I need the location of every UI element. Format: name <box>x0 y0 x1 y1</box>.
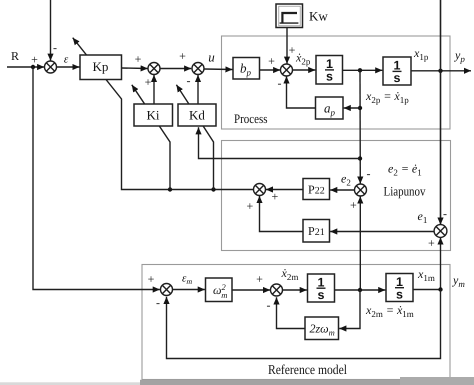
wire Kd up to sum3 <box>197 75 199 104</box>
svg-text:yp: yp <box>454 48 465 64</box>
node x2p <box>358 68 362 72</box>
wire ref integrator2 out <box>413 289 441 291</box>
svg-text:Ki: Ki <box>147 108 160 123</box>
wire Kp to sum2 <box>122 67 148 70</box>
wire sum2 to sum3 <box>160 68 191 70</box>
wire e1 to P21 <box>330 231 435 233</box>
block ref integrator 1s m2 <box>386 274 413 302</box>
summing junction em <box>161 284 173 296</box>
svg-text:ym: ym <box>452 273 465 289</box>
svg-text:+: + <box>350 198 357 212</box>
node x2p to Kd tap <box>358 156 362 160</box>
summing junction sum1 <box>45 61 57 73</box>
svg-text:s: s <box>326 70 333 84</box>
wire 2zwm to sum2m bottom <box>277 297 306 328</box>
svg-text:s: s <box>396 287 403 301</box>
svg-text:s: s <box>318 288 325 302</box>
wire ref integrator1 to integrator2 <box>335 289 386 291</box>
block ap <box>316 97 344 119</box>
wire em sum to wm2 <box>172 289 205 291</box>
wire ym up to e1 sum <box>440 237 442 289</box>
wire x2p down to e2 sum <box>359 70 361 183</box>
svg-text:e2 = ė1: e2 = ė1 <box>388 162 422 178</box>
svg-text:P22: P22 <box>308 183 325 197</box>
summing junction sumL adaptation <box>254 184 266 196</box>
wire x2p tap to Kd bottom <box>199 127 361 158</box>
wire yp down to e1 sum <box>440 0 442 225</box>
block wm2 <box>206 278 233 302</box>
node Kd tap <box>211 187 215 191</box>
svg-text:-: - <box>367 167 371 181</box>
block integrator 1s process2 <box>383 57 411 85</box>
svg-text:x2p = ẋ1p: x2p = ẋ1p <box>365 89 409 105</box>
node Ki tap <box>168 187 172 191</box>
wire bp to sum4 <box>260 69 281 71</box>
wire yp feedback from top into sum1 <box>50 0 52 61</box>
svg-text:u: u <box>208 50 215 65</box>
svg-text:e2: e2 <box>341 172 351 188</box>
block ref integrator 1s m1 <box>308 274 335 302</box>
summing junction sum4 process <box>281 64 293 76</box>
wire P21 to sumL bottom <box>260 196 304 232</box>
summing junction e1 <box>434 225 447 238</box>
wire adaptation bus from sumL <box>73 38 254 190</box>
svg-text:e1: e1 <box>418 209 428 225</box>
wire adaptation to Ki <box>132 85 170 190</box>
node ap tap <box>358 106 362 110</box>
summing junction sum2m <box>271 284 283 296</box>
svg-text:+: + <box>148 272 155 286</box>
wire integrator1 to integrator2 <box>343 69 383 71</box>
svg-text:+: + <box>31 53 38 67</box>
svg-text:Reference model: Reference model <box>268 362 347 377</box>
wire x2m up into e2 sum <box>359 196 361 290</box>
scan artifact bottom strip <box>140 380 400 385</box>
svg-text:-: - <box>53 41 57 55</box>
wire ym feedback loop bottom <box>167 290 441 359</box>
wire wm2 to sum2m <box>232 289 270 291</box>
svg-text:+: + <box>289 43 296 57</box>
process box <box>222 36 451 129</box>
svg-text:ẋ2p: ẋ2p <box>295 51 311 67</box>
svg-text:+: + <box>145 75 152 89</box>
svg-text:ẋ2m: ẋ2m <box>281 266 299 282</box>
wire into ap <box>344 107 360 109</box>
svg-text:s: s <box>394 71 401 85</box>
svg-text:+: + <box>268 54 275 68</box>
block integrator 1s process1 <box>316 56 343 85</box>
svg-text:+: + <box>256 272 263 286</box>
wire ap feedback to sum4 <box>287 76 316 108</box>
svg-text:-: - <box>443 207 447 221</box>
reference model box <box>142 265 450 380</box>
svg-text:-: - <box>267 298 271 312</box>
svg-text:-: - <box>156 296 160 310</box>
wire sum4 to integrator1 <box>293 69 316 71</box>
svg-text:-: - <box>278 76 282 90</box>
block Kp <box>80 55 122 80</box>
svg-text:+: + <box>247 199 254 213</box>
svg-text:Kd: Kd <box>189 108 205 123</box>
svg-text:+: + <box>272 190 279 204</box>
summing junction sum3 <box>192 63 204 75</box>
summing junction sum2 <box>148 63 160 75</box>
svg-text:R: R <box>11 49 19 63</box>
svg-text:εm: εm <box>182 273 192 287</box>
block 2zwm <box>305 317 339 340</box>
wire R input <box>7 66 44 68</box>
block P21 <box>303 220 330 243</box>
liapunov box <box>222 141 451 251</box>
svg-text:x2m = ẋ1m: x2m = ẋ1m <box>365 303 414 319</box>
wire Ki up to sum2 <box>153 75 155 104</box>
block P22 <box>303 179 330 200</box>
wire Kw down to sum4 <box>286 28 288 64</box>
wire adaptation to Kd <box>176 85 213 190</box>
svg-text:+: + <box>135 52 142 66</box>
wire e2 to P22 <box>330 189 355 191</box>
svg-text:P21: P21 <box>308 224 325 238</box>
svg-text:x1p: x1p <box>413 46 429 62</box>
svg-text:x1m: x1m <box>417 267 435 283</box>
svg-text:Process: Process <box>234 111 268 126</box>
block bp <box>233 58 260 80</box>
wire integrator2 output yp <box>411 70 471 72</box>
svg-text:Kp: Kp <box>93 59 109 74</box>
svg-text:ε: ε <box>64 54 69 66</box>
svg-text:Liapunov: Liapunov <box>384 183 426 198</box>
svg-text:+: + <box>179 49 186 63</box>
svg-text:Kw: Kw <box>309 9 328 24</box>
svg-text:-: - <box>187 74 191 88</box>
svg-text:+: + <box>428 236 435 250</box>
wire sum1 to Kp <box>56 66 79 68</box>
wire x2m to 2zwm <box>339 290 360 329</box>
node x2m <box>358 288 362 292</box>
wire sum2m to ref integrator1 <box>282 289 307 291</box>
block Kw <box>276 4 303 28</box>
node R branch <box>31 65 35 69</box>
wire R branch down to reference model <box>33 67 160 290</box>
wire P22 to sumL <box>266 189 303 191</box>
node ym <box>438 287 442 291</box>
summing junction e2 <box>355 184 367 196</box>
wire u: sum3 to bp <box>204 68 232 71</box>
block Ki <box>134 104 173 126</box>
node yp <box>438 69 442 73</box>
block Kd <box>178 104 216 126</box>
